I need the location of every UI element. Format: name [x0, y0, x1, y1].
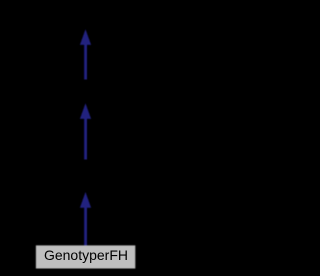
inheritance arrow 2 (middle)	[80, 103, 91, 159]
inheritance arrow 3 (bottom)	[80, 192, 91, 247]
svg-text:GenotyperFH: GenotyperFH	[44, 247, 128, 263]
inheritance arrow 1 (top)	[80, 29, 91, 79]
node GenotyperFH	[36, 245, 135, 268]
